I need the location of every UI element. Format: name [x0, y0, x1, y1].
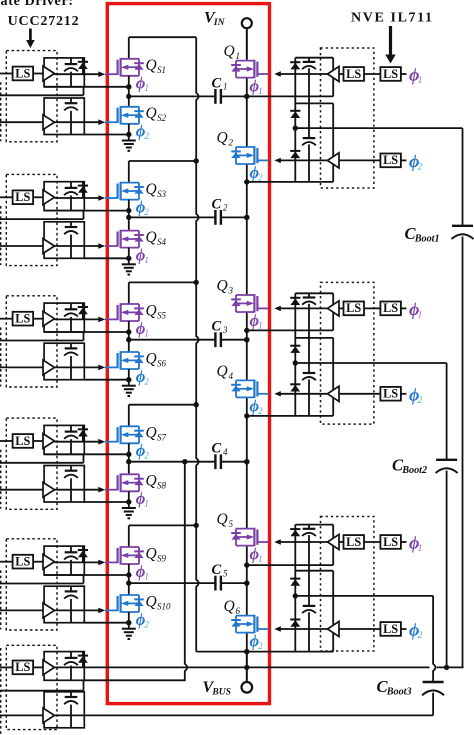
level shifter LS D5 [13, 555, 33, 569]
buffer high D6 [43, 660, 55, 675]
transistor QS10 [105, 594, 144, 612]
svg-text:LS: LS [383, 67, 398, 81]
wire source return mid D6 [0, 690, 84, 692]
wire phi2 source reference U2 [247, 415, 333, 417]
gate driver block D1 dashed outline [6, 51, 57, 142]
svg-text:Q: Q [224, 598, 235, 615]
transistor Q2 [231, 146, 268, 164]
wire source sense to driver 5 [44, 574, 129, 576]
svg-text:Q: Q [217, 363, 228, 380]
svg-text:Q: Q [146, 181, 157, 198]
svg-text:S1: S1 [157, 65, 166, 75]
label phi_2 of QS2 [136, 122, 150, 142]
label QS8 [146, 473, 167, 491]
node flying cap line 1 [126, 94, 131, 99]
wire LS to buffer [33, 318, 43, 320]
svg-text:Q: Q [217, 129, 228, 146]
level shifter LS b U1 [380, 67, 401, 81]
wire gate drive Q6 [281, 628, 328, 630]
level shifter LS c U1 [380, 153, 401, 167]
driver box low U1 [295, 102, 333, 104]
wire QS7 source to QS8 drain [128, 443, 130, 474]
svg-text:2: 2 [223, 203, 228, 213]
label phi_1 of QS8 [136, 489, 149, 509]
svg-text:1: 1 [144, 255, 149, 265]
wire source return mid D4 [0, 462, 84, 464]
wire driver low ground reference D5 [84, 622, 129, 624]
wire gate drive low D3 [55, 366, 100, 368]
level shifter LS c U2 [380, 387, 401, 401]
svg-text:2: 2 [418, 162, 423, 172]
diode D2 U2 [290, 346, 300, 353]
label phi_2 of QS3 [136, 198, 150, 218]
svg-text:LS: LS [346, 301, 361, 315]
wire gate drive Q1 [281, 73, 328, 75]
svg-text:5: 5 [223, 568, 228, 578]
transistor Q4 [231, 380, 268, 398]
svg-text:Q: Q [217, 277, 228, 294]
bootstrap diode D3 [78, 303, 88, 319]
buffer low D5 [43, 603, 55, 618]
svg-text:1: 1 [144, 83, 149, 93]
diode chain vertical U1 [294, 58, 296, 182]
driver box high U3 [295, 524, 333, 526]
level shifter LS D4 [13, 434, 33, 448]
wire V_BUS drive line [55, 666, 247, 668]
svg-text:C: C [212, 319, 222, 335]
bootstrap diode D2 [78, 182, 88, 198]
wire QS2 source to ground [128, 124, 130, 135]
wire section 4 top frame [129, 404, 196, 406]
svg-text:C: C [212, 196, 222, 212]
capacitor C4 [129, 441, 247, 469]
diode D1 U3 [290, 529, 300, 536]
bootstrap diode D5 [78, 546, 88, 562]
wire source sense to driver 3 [44, 331, 129, 333]
svg-text:Q: Q [146, 105, 157, 122]
svg-text:Boot1: Boot1 [414, 234, 440, 245]
node flying cap line 4 [126, 459, 131, 464]
svg-text:1: 1 [418, 544, 423, 554]
svg-text:C: C [212, 562, 222, 578]
level shifter LS b U2 [380, 301, 401, 315]
level shifter LS c U3 [380, 622, 401, 636]
wire LS to buffer D6 [33, 666, 43, 668]
driver box high D1 [44, 58, 84, 87]
buffer high D4 [43, 434, 55, 449]
wire buffer low input D5 [0, 609, 43, 611]
wire buffer low to LS U2 [339, 393, 380, 395]
isolated driver block U1 dotted outline [321, 48, 374, 188]
buffer high U2 [328, 301, 340, 316]
svg-text:LS: LS [15, 660, 30, 674]
node C4 right [244, 459, 249, 464]
wire LS to phi2 input U1 [401, 159, 407, 161]
buffer high D3 [43, 311, 55, 326]
svg-text:C: C [212, 75, 222, 91]
wire source sense to driver 1 [44, 86, 129, 88]
cropped dashed box edge at image left [0, 327, 2, 386]
ground [122, 135, 136, 151]
svg-text:Boot2: Boot2 [401, 465, 427, 476]
driver box low U3 [295, 570, 333, 572]
wire buffer to LS U1 [339, 73, 344, 75]
diode D2 U1 [290, 111, 300, 118]
bootstrap capacitor D5a [64, 546, 78, 575]
bootstrap diode D4 [78, 425, 88, 441]
arrow from UCC27212 to driver block [29, 29, 32, 41]
capacitor C_Boot1 [405, 128, 474, 667]
label QS10 [146, 593, 172, 611]
label phi_2 of QS10 [136, 610, 150, 630]
wire LS to phi2 input U2 [401, 393, 407, 395]
level shifter LS input D4 [0, 440, 13, 442]
svg-text:1: 1 [144, 328, 149, 338]
buffer low D4 [43, 482, 55, 497]
label phi_2 of Q2 [250, 163, 264, 183]
label phi_1 input U3 [409, 533, 422, 555]
svg-text:2: 2 [144, 207, 149, 217]
svg-text:Q: Q [146, 229, 157, 246]
label QS5 [146, 302, 167, 320]
buffer low D2 [43, 239, 55, 254]
capacitor C1 U1 [302, 62, 316, 69]
svg-text:2: 2 [144, 376, 149, 386]
wire LS-LS [364, 73, 380, 75]
wire phi1 source reference U1 [247, 95, 333, 97]
transistor QS4 [105, 230, 144, 248]
driver box high D2 [44, 182, 84, 211]
wire C4 reference down to bottom driver [182, 459, 187, 464]
boot tap wire to C_Boot1 [295, 127, 462, 129]
svg-text:Q: Q [146, 473, 157, 490]
wire phi2 source reference U3 [247, 651, 333, 653]
wire source return mid D3 [0, 340, 84, 342]
svg-text:LS: LS [346, 535, 361, 549]
wire section 2 top frame [129, 160, 196, 162]
bootstrap capacitor D4a [64, 425, 78, 454]
decoupling capacitor D2b [64, 222, 78, 258]
wire driver low ground reference D4 [84, 501, 129, 503]
wire buffer to LS U3 [339, 541, 344, 543]
wire phi1 source reference U2 [247, 329, 333, 331]
capacitor C1 U2 [302, 298, 316, 305]
svg-text:S8: S8 [157, 481, 167, 491]
wire gate drive high D5 [55, 561, 100, 563]
svg-text:S10: S10 [157, 601, 171, 611]
isolated driver block U2 dotted outline [321, 282, 374, 424]
transistor QS7 [105, 426, 144, 444]
svg-text:LS: LS [383, 535, 398, 549]
wire source sense to driver 4 [44, 453, 129, 455]
capacitor C_Boot2 [392, 363, 458, 667]
capacitor C1 U3 [302, 529, 316, 536]
driver box low D1 [44, 98, 84, 135]
svg-text:2: 2 [229, 137, 234, 147]
label phi_1 input U2 [409, 299, 422, 321]
wire section 1 top frame [129, 36, 196, 38]
driver box high D4 [44, 425, 84, 454]
level shifter LS D2 [13, 190, 33, 204]
bootstrap capacitor D2a [64, 182, 78, 211]
wire right rail segments [246, 28, 248, 60]
transistor QS5 [105, 303, 144, 321]
label phi_2 of QS7 [136, 441, 150, 461]
wire QS5 source to QS6 drain [128, 321, 130, 352]
level shifter LS b U3 [380, 535, 401, 549]
svg-text:2: 2 [418, 396, 423, 406]
transistor QS1 [105, 58, 144, 76]
svg-text:2: 2 [144, 619, 149, 629]
level shifter LS D6 [13, 660, 33, 674]
buffer low D3 [43, 360, 55, 375]
svg-text:2: 2 [258, 641, 263, 651]
level shifter LS a U2 [344, 301, 365, 315]
svg-text:Q: Q [146, 350, 157, 367]
wire V_BUS to C_Boot1 lead corner [444, 665, 449, 670]
gate driver block D2 dashed outline [6, 174, 57, 265]
svg-text:S4: S4 [157, 237, 167, 247]
driver box high D5 [44, 546, 84, 575]
wire gate drive low D4 [55, 489, 100, 491]
wire V_IN to Q1 drain [246, 28, 248, 58]
svg-text:Q: Q [146, 302, 157, 319]
svg-text:Q: Q [146, 545, 157, 562]
wire LS to phi1 input U3 [401, 541, 407, 543]
svg-text:NVE IL711: NVE IL711 [351, 11, 432, 26]
driver box high D3 [44, 303, 84, 332]
label Q3 [217, 277, 234, 295]
node flying cap line 5 [126, 580, 131, 585]
diode D3 U3 [290, 620, 300, 627]
wire QS3 source to QS4 drain [128, 200, 130, 231]
level shifter LS a U1 [344, 67, 365, 81]
label phi_2 of Q6 [250, 632, 264, 652]
gate driver block D5 dashed outline [6, 539, 57, 630]
level shifter LS D3 [13, 312, 33, 326]
wire middle vertical bus with hops [196, 37, 198, 651]
wire LS to buffer [33, 196, 43, 198]
wire gate drive low D5 [55, 609, 100, 611]
decoupling capacitor D5b [64, 586, 78, 623]
wire driver low ground reference D2 [84, 257, 129, 259]
level shifter LS input D3 [0, 318, 13, 320]
diode D1 U2 [290, 298, 300, 305]
bootstrap capacitor D1a [64, 58, 78, 87]
gate driver block D3 dashed outline [6, 296, 57, 387]
svg-text:LS: LS [383, 622, 398, 636]
wire to C_Boot3 bottom [55, 714, 434, 716]
svg-text:Q: Q [146, 593, 157, 610]
capacitor C2 U3 [302, 606, 316, 613]
diode chain vertical U2 [294, 293, 296, 416]
wire buffer low input D3 [0, 366, 43, 368]
svg-text:1: 1 [144, 571, 149, 581]
wire buffer low input D6 [0, 714, 43, 716]
svg-text:LS: LS [15, 190, 30, 204]
buffer high D5 [43, 554, 55, 569]
wire LS to buffer [33, 440, 43, 442]
wire buffer to LS U2 [339, 307, 344, 309]
bootstrap capacitor D3a [64, 303, 78, 332]
transistor QS8 [105, 474, 144, 492]
bootstrap capacitor D6a [64, 652, 78, 681]
wire QS4 source to ground [128, 248, 130, 259]
svg-text:Gate Driver:: Gate Driver: [0, 0, 73, 9]
wire phi1 source reference U3 [247, 564, 333, 566]
cropped dashed box edge at image left [0, 82, 2, 141]
buffer low U3 [328, 621, 340, 636]
label phi_2 input U3 [409, 620, 423, 642]
level shifter LS input D6 [0, 666, 13, 668]
wire buffer low to LS U1 [339, 159, 380, 161]
cap chain vertical U3 [308, 525, 310, 529]
cap chain vertical U1 [308, 58, 310, 62]
label QS2 [146, 105, 167, 123]
capacitor C_Boot3 [377, 596, 445, 716]
buffer high D2 [43, 190, 55, 205]
wire gate drive Q5 [281, 541, 328, 543]
label phi_1 of Q5 [250, 545, 263, 565]
wire gate drive high D3 [55, 318, 100, 320]
svg-text:4: 4 [229, 371, 234, 381]
ground [122, 502, 136, 518]
diode D3 U2 [290, 384, 300, 391]
label QS9 [146, 545, 167, 563]
wire gate drive low D2 [55, 245, 100, 247]
cropped dashed box edge bottom left [0, 648, 2, 734]
label Q2 [217, 129, 234, 147]
capacitor C2 U1 [302, 138, 316, 145]
transistor QS6 [105, 351, 144, 369]
ground [122, 623, 136, 639]
svg-text:4: 4 [223, 447, 228, 457]
svg-text:2: 2 [258, 172, 263, 182]
transistor Q6 [231, 615, 268, 633]
svg-text:1: 1 [418, 76, 423, 86]
wire bus bottom to V_BUS rail [196, 651, 247, 653]
wire buffer low to LS U3 [339, 628, 380, 630]
label phi_1 input U1 [409, 65, 422, 87]
wire gate drive high D2 [55, 197, 100, 199]
boot tap wire to C_Boot2 [295, 362, 446, 364]
gate driver block D6 dashed outline [6, 645, 57, 729]
svg-text:1: 1 [258, 320, 263, 330]
wire buffer low input D1 [0, 121, 43, 123]
label QS3 [146, 181, 167, 199]
label phi_2 input U2 [409, 384, 423, 406]
label phi_1 of QS9 [136, 562, 149, 582]
label Q5 [217, 511, 234, 529]
transistor QS2 [105, 106, 144, 124]
decoupling capacitor D3b [64, 343, 78, 380]
boot tap wire to C_Boot3 [295, 595, 433, 597]
wire LS to buffer [33, 561, 43, 563]
driver box high U1 [295, 57, 333, 59]
buffer low D6 [43, 708, 55, 723]
ground [122, 380, 136, 396]
bootstrap diode D1 [78, 58, 88, 74]
red highlight box around switching column [107, 4, 269, 704]
svg-text:S6: S6 [157, 358, 167, 368]
wire source return mid D5 [0, 583, 84, 585]
label phi_1 of QS5 [136, 319, 149, 339]
capacitor C2 U2 [302, 373, 316, 380]
node C3 right [244, 337, 249, 342]
label QS6 [146, 350, 167, 368]
level shifter LS a U3 [344, 535, 365, 549]
svg-text:LS: LS [383, 153, 398, 167]
level shifter LS D1 [13, 66, 33, 80]
svg-text:6: 6 [236, 606, 241, 616]
label phi_1 of QS1 [136, 74, 149, 94]
svg-text:LS: LS [383, 387, 398, 401]
wire gate drive high D4 [55, 441, 100, 443]
label QS1 [146, 57, 167, 75]
wire section 3 top frame [129, 281, 196, 283]
buffer high D1 [43, 66, 55, 81]
svg-text:1: 1 [258, 554, 263, 564]
svg-text:LS: LS [15, 312, 30, 326]
diode chain vertical U3 [294, 525, 296, 652]
label phi_1 of QS4 [136, 246, 149, 266]
wire gate drive Q3 [281, 307, 328, 309]
wire source return mid D1 [0, 94, 84, 96]
wire buffer low input D4 [0, 489, 43, 491]
transistor Q3 [231, 294, 268, 312]
svg-text:1: 1 [144, 499, 149, 509]
node C5 right [244, 580, 249, 585]
label phi_1 of Q3 [250, 311, 263, 331]
wire gate drive Q4 [281, 393, 328, 395]
wire source sense to driver 2 [44, 210, 129, 212]
bootstrap diode D6 [78, 652, 88, 668]
wire QS8 source to ground [128, 491, 130, 502]
label phi_2 input U1 [409, 151, 423, 173]
svg-text:1: 1 [258, 86, 263, 96]
node flying cap line 2 [126, 215, 131, 220]
buffer high U1 [328, 66, 340, 81]
label QS7 [146, 425, 167, 443]
driver box low D3 [44, 343, 84, 380]
level shifter LS input D5 [0, 561, 13, 563]
wire QS9 source to QS10 drain [128, 564, 130, 595]
label phi_1 of Q1 [250, 77, 263, 97]
transistor QS3 [105, 182, 144, 200]
buffer high U3 [328, 534, 340, 549]
label QS4 [146, 229, 167, 247]
wire QS1 source to QS2 drain [128, 76, 130, 107]
driver box low D5 [44, 586, 84, 623]
transistor QS9 [105, 546, 144, 564]
svg-text:S9: S9 [157, 553, 167, 563]
svg-text:2: 2 [258, 406, 263, 416]
label phi_2 of Q4 [250, 396, 264, 416]
diode D1 U1 [290, 62, 300, 69]
wire Q6 source to V_BUS [246, 652, 248, 682]
wire QS6 source to ground [128, 369, 130, 380]
wire LS to phi1 input U1 [401, 73, 407, 75]
svg-text:Q: Q [217, 511, 228, 528]
svg-text:LS: LS [15, 555, 30, 569]
wire gate drive high D1 [55, 73, 100, 75]
decoupling capacitor D1b [64, 98, 78, 135]
driver box high U2 [295, 292, 333, 294]
wire phi2 source reference U1 [247, 181, 333, 183]
svg-text:S5: S5 [157, 310, 167, 320]
isolated driver block U3 dotted outline [321, 517, 374, 652]
wire source return mid D2 [0, 218, 84, 220]
